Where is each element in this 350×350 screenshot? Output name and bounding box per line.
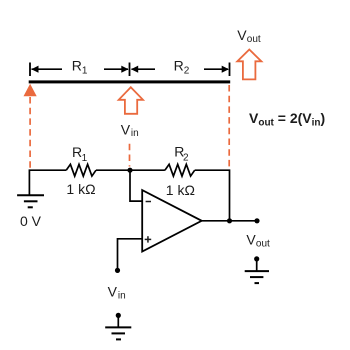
op-amp U1 (142, 190, 202, 251)
dimension tick middle (129, 63, 131, 77)
wire: noninverting input (118, 239, 143, 271)
dashed line at Vin (129, 144, 131, 167)
wire: R2 to feedback corner, down to output (195, 170, 230, 221)
ground (output side) (245, 256, 269, 283)
svg-text:V: V (246, 232, 256, 248)
terminal Vin (115, 268, 120, 273)
terminal Vout (254, 218, 259, 223)
dimension tick right (229, 63, 231, 77)
resistor R1 (66, 164, 96, 176)
fulcrum triangle (orange, 0V pivot) (24, 84, 37, 97)
svg-text:V: V (121, 121, 131, 137)
orange up-arrow Vout (237, 50, 261, 80)
lever beam (29, 80, 231, 83)
wire: op-amp output (202, 220, 257, 222)
svg-text:R: R (72, 144, 82, 160)
ground symbol 0V (17, 195, 44, 207)
svg-text:1: 1 (82, 153, 88, 164)
wire: R1 to node A (96, 169, 165, 171)
junction (feedback/output) (227, 218, 232, 223)
wire: ground corner to R1 (29, 170, 66, 195)
svg-text:V: V (108, 283, 118, 299)
resistor R2 (165, 164, 195, 176)
op-amp minus sign (146, 201, 151, 203)
svg-text:in: in (118, 291, 126, 302)
svg-text:out: out (256, 239, 270, 250)
op-amp plus sign (145, 236, 152, 242)
svg-text:0 V: 0 V (20, 213, 42, 229)
dashed line at 0V pivot (29, 97, 31, 169)
wire: node A down and right to inverting input (130, 170, 142, 201)
svg-text:2: 2 (183, 152, 189, 163)
node A (Vin junction) (127, 168, 132, 173)
dimension tick left (29, 63, 31, 77)
dimension arrow R1 right (104, 66, 129, 73)
svg-text:1 kΩ: 1 kΩ (66, 181, 95, 197)
svg-text:out: out (247, 34, 261, 45)
dimension arrow R2 left (131, 66, 155, 73)
svg-text:V: V (237, 27, 247, 43)
orange up-arrow Vin (119, 87, 143, 114)
ground (input side) (105, 313, 131, 340)
dimension arrow R1 left (31, 66, 62, 73)
dimension arrow R2 right (204, 66, 229, 73)
svg-text:in: in (131, 128, 139, 139)
dashed line at Vout (228, 85, 230, 170)
svg-text:1 kΩ: 1 kΩ (166, 182, 195, 198)
